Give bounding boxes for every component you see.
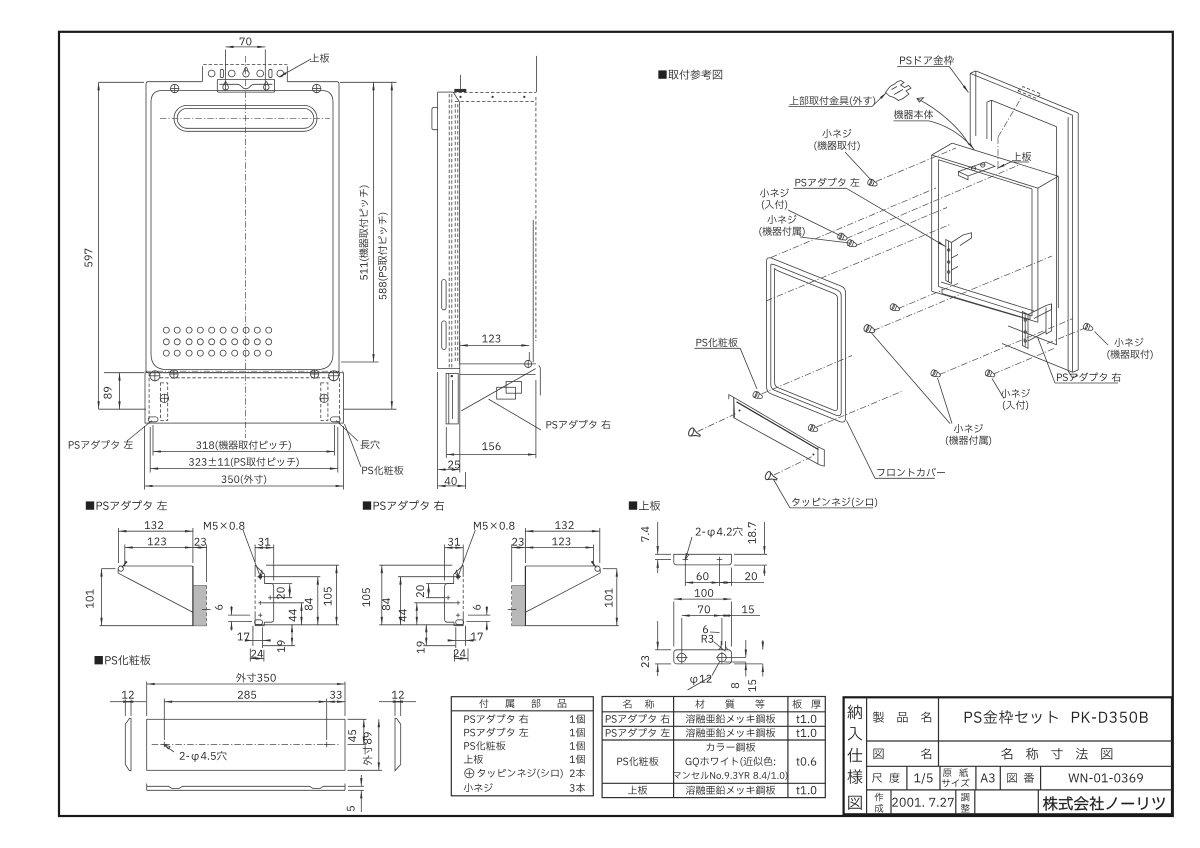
detail: top plate upper view (674, 554, 732, 565)
assembly axis dash-dot lines (698, 97, 1085, 476)
label upper bracket (789, 93, 887, 107)
label small screw irezuke right (992, 379, 1030, 411)
side view: top bracket edge-on (453, 56, 536, 102)
front view: top plate (uwa-ita) (217, 79, 274, 92)
label small screw kiki-toritsuke left (814, 129, 871, 180)
PS door frame outer (970, 71, 1078, 378)
kiki body box outer (932, 143, 1059, 322)
detail: PS adapter right geometry (379, 528, 619, 662)
front view: top corner screws (170, 84, 321, 93)
section header: mounting reference (658, 69, 722, 79)
PS adapter left bracket floating (946, 233, 972, 284)
title block row2 drawing name (873, 748, 1112, 760)
label uwa-ita exploded (997, 152, 1031, 168)
detail adapter left dim texts (86, 521, 332, 657)
material table (602, 697, 825, 798)
PS adapter right bracket on frame (1023, 304, 1052, 349)
PS plate exploded (729, 395, 825, 466)
upper bracket (removed) (886, 81, 912, 101)
detail: PS plate face (125, 718, 400, 770)
front cover (767, 258, 846, 422)
door frame mounting hole dashed (1018, 87, 1041, 99)
detail: PS adapter left geometry (100, 528, 340, 662)
detail top plate dims upper (641, 522, 767, 586)
dim 70 top (226, 37, 266, 91)
dim 318 bottom (153, 425, 335, 456)
dim 350 bottom (145, 426, 344, 490)
front view: adapter screws on plate (150, 370, 339, 403)
side view: wall tab (432, 108, 438, 130)
detail: top plate header (629, 501, 660, 511)
side view: frame profile strip (438, 92, 460, 369)
dim 123 side (460, 335, 530, 360)
screws (867, 178, 878, 188)
label kiki body (894, 110, 975, 150)
detail: PS plate header (95, 655, 151, 665)
detail: top plate lower view (674, 641, 732, 664)
title block row1 product name (873, 697, 1148, 766)
front view: louver hole grid (163, 327, 271, 356)
label small screw kiki-fuzoku center (872, 333, 992, 445)
front view: vent slot (160, 105, 330, 131)
front view: body bottom edges (145, 371, 344, 378)
front view: top mounting bracket (202, 65, 287, 82)
kiki body box opening (939, 160, 1035, 316)
accessory parts table (451, 697, 593, 796)
label PS plate exploded (695, 338, 758, 389)
detail adapter right dim texts (362, 521, 612, 657)
title block frame (844, 697, 1172, 814)
dim 511 right (340, 82, 397, 362)
front view: center line (245, 56, 247, 438)
swing arc (917, 99, 969, 145)
dim 597 left (84, 82, 146, 409)
top plate bracket on box (959, 162, 996, 180)
side view: unit front face lines (533, 97, 536, 362)
label PS door frame (897, 56, 968, 93)
kiki body base flange (942, 289, 1030, 320)
detail top plate dims lower (641, 589, 763, 692)
front view: body outline (kiki) (146, 82, 339, 373)
dim 89 left (104, 373, 144, 410)
label tapping screw (774, 480, 878, 508)
detail PS plate dims (110, 505, 416, 770)
label PS plate (345, 424, 404, 475)
label PS adapter left exploded (794, 178, 946, 247)
label front cover (847, 421, 946, 479)
detail PS plate profile dim 5 (347, 775, 364, 812)
label long hole (336, 421, 380, 450)
label small screw kiki-fuzoku left (759, 215, 849, 243)
label PS adapter right exploded (1038, 337, 1121, 383)
title block row3 (872, 766, 1143, 790)
label uwa-ita top (279, 53, 329, 77)
side view: adapter bottom (438, 360, 541, 424)
dim 588 right (344, 82, 397, 409)
detail: PS plate side profile (147, 784, 345, 791)
label PS adapter left (69, 421, 152, 449)
detail: PS adapter left header (86, 500, 167, 510)
title block row4 (874, 790, 1164, 814)
dim 25 side (438, 352, 460, 489)
label small screw irezuke left (760, 188, 840, 235)
label PS adapter right side (489, 399, 611, 430)
dim 156 side (446, 380, 536, 458)
title block delivery spec column (847, 705, 862, 810)
detail: PS adapter right header (363, 500, 444, 510)
label small screw kiki-toritsuke right (1095, 332, 1153, 360)
PS door frame opening (987, 100, 1057, 345)
side view: slots (442, 280, 446, 310)
dim 323 bottom (150, 427, 338, 473)
front view: PS decorative plate (145, 373, 344, 423)
dim 40 side (438, 472, 466, 489)
